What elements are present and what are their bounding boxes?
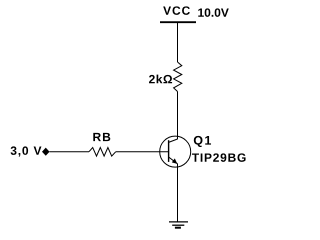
wire resistor R1 to collector of Q1 <box>177 92 179 140</box>
transistor Q1 base bar <box>168 140 170 162</box>
label RB <box>93 133 110 141</box>
label VCC <box>163 6 190 15</box>
wire emitter of Q1 to ground <box>177 164 179 222</box>
ground symbol bottom line <box>175 227 181 229</box>
transistor Q1 emitter diagonal <box>169 157 178 164</box>
label TIP29BG <box>192 153 246 162</box>
ground symbol top line <box>169 221 188 223</box>
source label 3,0 V <box>11 146 42 156</box>
transistor Q1 emitter arrowhead <box>172 158 178 164</box>
resistor RB horizontal zigzag <box>89 148 116 157</box>
label Q1 <box>194 136 211 147</box>
value label 2kOhm <box>149 75 172 84</box>
wire resistor RB to base of Q1 <box>116 151 169 153</box>
power rail VCC bar <box>160 21 196 23</box>
transistor Q1 collector diagonal <box>169 139 178 142</box>
wire terminal to resistor RB <box>49 151 89 153</box>
transistor Q1 circle <box>160 136 191 167</box>
ground symbol middle line <box>172 224 184 226</box>
value label 10.0V <box>198 8 229 17</box>
input terminal diamond <box>42 148 50 156</box>
resistor R1 2k ohm vertical zigzag <box>174 62 182 92</box>
wire VCC rail to resistor R1 <box>177 22 179 62</box>
